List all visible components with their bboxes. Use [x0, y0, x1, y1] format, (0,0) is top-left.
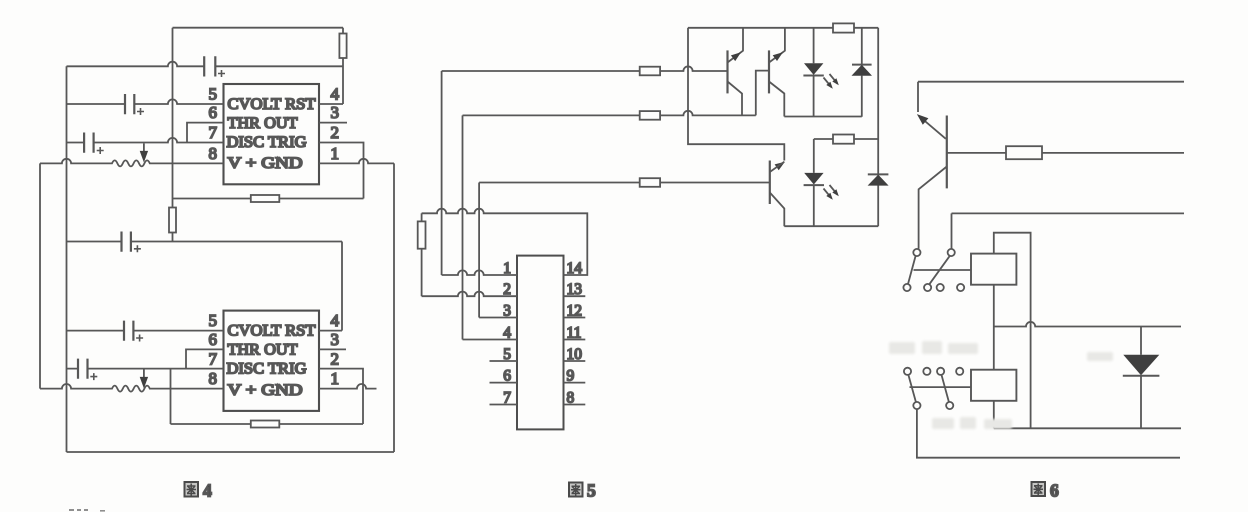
- capacitor C1 (top, on cap row): [204, 56, 225, 77]
- wire relay K1 bottom to middle rail: [993, 285, 995, 327]
- svg-text:2: 2: [331, 123, 340, 142]
- wire U2 pin1 with hop (open end): [319, 384, 377, 389]
- contact F: [957, 284, 964, 291]
- svg-text:3: 3: [331, 103, 340, 122]
- caption 图5 glyph: [569, 483, 583, 497]
- wire contact K down to lowest rail: [917, 409, 1180, 458]
- wire U3 pin2 row with hops: [422, 292, 517, 297]
- wire U3 pin7 stub: [490, 404, 518, 406]
- svg-text:8: 8: [209, 144, 218, 163]
- svg-text:CVOLT RST: CVOLT RST: [228, 96, 317, 113]
- transistor Q4 base bar: [946, 116, 948, 189]
- wire U3 pin6 stub: [490, 382, 518, 384]
- wire U2 pin6 stub and 6-7 bracket: [186, 349, 224, 368]
- transistor Q3 base bar: [769, 161, 771, 205]
- wire U2 pin7 node down to lower resistor row: [170, 369, 172, 424]
- contact E: [937, 284, 944, 291]
- transistor Q1 collector down to wire2 node: [728, 82, 743, 116]
- svg-text:4: 4: [331, 311, 340, 330]
- svg-text:DISC TRIG: DISC TRIG: [227, 134, 307, 151]
- svg-text:5: 5: [209, 85, 218, 104]
- lever contact G to K: [908, 375, 916, 402]
- svg-text:2: 2: [331, 350, 340, 369]
- svg-text:4: 4: [203, 481, 212, 501]
- wire top rail figure 6: [918, 81, 1184, 83]
- contact K: [913, 402, 920, 409]
- linkage bar to relay K2: [910, 386, 972, 388]
- resistor R4 (horizontal below U2): [171, 421, 364, 428]
- svg-text:CVOLT RST: CVOLT RST: [228, 322, 317, 339]
- svg-text:V + GND: V + GND: [228, 155, 303, 172]
- wire relay K1 top to right drop: [994, 233, 1031, 429]
- wire step from wire2 node up to Q2 base: [756, 71, 769, 116]
- wire U2 pin7 row: [67, 368, 224, 370]
- wire 3 vertical down to pin3 row: [478, 183, 480, 318]
- wire main left vertical x=172.5 with resistor R2: [169, 28, 176, 242]
- wire pin6 stub and 6-7 bracket: [187, 123, 224, 143]
- wire top rail of lower LED block: [814, 138, 878, 140]
- potentiometer RP1 wiper arrow: [143, 143, 145, 151]
- svg-text:7: 7: [209, 350, 218, 369]
- lever contact B to D: [929, 256, 950, 285]
- svg-text:7: 7: [209, 123, 218, 142]
- op-amp U2 (555 timer, lower): [224, 311, 320, 411]
- wire bottom rail of lower LED block: [784, 225, 878, 227]
- wire pin5 row with hop: [67, 99, 224, 104]
- wire U2 pin2 to lower node: [319, 369, 363, 424]
- caption 图4 glyph: [185, 482, 199, 497]
- wire U1 pin1 to right rail with hop: [319, 159, 394, 164]
- contact J: [956, 368, 963, 375]
- svg-text:5: 5: [587, 481, 596, 501]
- wire bottom rail of figure 4: [67, 451, 395, 453]
- wire U1 pin2 to lower node: [319, 143, 364, 199]
- wire middle rail with hop: [994, 322, 1181, 327]
- LED D1 emission arrows: [824, 74, 838, 87]
- svg-text:1: 1: [331, 144, 340, 163]
- wire U3 pin1 row with hops: [442, 270, 517, 275]
- wire bottom rail figure 6: [994, 427, 1181, 429]
- svg-text:5: 5: [209, 311, 218, 330]
- transistor Q3 emitter arrow: [775, 162, 785, 171]
- relay K1 coil box: [971, 254, 1016, 285]
- wire top rail upper section: [173, 27, 344, 29]
- wire Q4 base row with resistor R11: [947, 146, 1184, 159]
- resistor R3 (horizontal below U1): [173, 195, 364, 202]
- relay K2 coil box: [971, 370, 1016, 401]
- wire from second rail down to contact B: [951, 213, 953, 249]
- contact A (relay K1 common): [913, 249, 920, 256]
- wire U3 pin5 stub: [490, 360, 518, 362]
- wire U3 pin 8 stub: [564, 404, 586, 406]
- wire left rail x=66.5 down to bottom wire: [66, 66, 68, 452]
- transistor Q2 emitter with arrow to top rail: [769, 28, 785, 63]
- resistor R5 (left vertical of figure 5): [418, 213, 426, 296]
- resistor R1 (upper right vertical): [339, 28, 346, 104]
- transistor Q2 base bar: [768, 50, 770, 93]
- svg-text:6: 6: [1050, 481, 1059, 501]
- caption 图6 glyph: [1032, 482, 1046, 496]
- wire pin7 row with hop: [67, 138, 224, 143]
- wire U2 pin3 stub: [319, 348, 346, 350]
- contact G: [904, 368, 911, 375]
- svg-text:THR OUT: THR OUT: [228, 341, 299, 358]
- capacitor C6 (U2 pin7 row): [78, 359, 97, 381]
- wire inter-section cap row: [67, 241, 343, 243]
- diode D2 (top block middle branch): [852, 28, 873, 117]
- wire 2 vertical down to pin4 row: [462, 115, 464, 339]
- wire U1 pin4 stub: [319, 103, 343, 105]
- wire relay K2 bottom to bottom rail: [993, 401, 995, 429]
- transistor Q1 base bar: [726, 50, 728, 93]
- svg-text:DISC TRIG: DISC TRIG: [227, 360, 307, 377]
- svg-text:V + GND: V + GND: [228, 382, 303, 399]
- diode D5 (flyback, across rails): [1123, 327, 1160, 429]
- page-bottom specks: [69, 509, 105, 512]
- lever contact A to C: [908, 256, 916, 284]
- wire left vertical to Q3 emitter: [688, 28, 784, 161]
- contact B (relay K1 common 2): [948, 249, 955, 256]
- figure 5: 14-pin IC driving transistors and opto-LED blocks: [418, 23, 889, 500]
- contact L: [946, 402, 953, 409]
- transistor Q2 collector down to LED block rail: [769, 82, 784, 117]
- svg-text:3: 3: [331, 330, 340, 349]
- wire U2 pin4 stub: [319, 330, 342, 332]
- lever contact I to L: [942, 375, 949, 402]
- wire pin8 row with hop and potentiometer RP1: [40, 159, 224, 167]
- linkage bar to relay K1: [914, 269, 972, 271]
- figure 6: output transistor with relays: [903, 82, 1184, 501]
- faint print-through artifacts: [889, 341, 1113, 429]
- wire U3 pin 10 stub: [564, 360, 586, 362]
- wire U3 pin 12 stub: [564, 317, 586, 319]
- svg-text:8: 8: [209, 369, 218, 388]
- wire U2 pin5 row: [67, 330, 224, 332]
- contact D: [924, 284, 931, 291]
- diode D4 (lower block right branch): [868, 139, 889, 226]
- wire 2: to Q2 base via step, with resistor R7: [463, 111, 756, 120]
- LED D1 (top block left branch): [803, 28, 823, 117]
- wire 1 vertical down to pin1 row: [441, 71, 443, 275]
- wire top emitter rail of figure 5: [688, 27, 878, 29]
- wire bottom rail of top LED block: [784, 116, 862, 118]
- capacitor C3 (pin7 row): [84, 133, 104, 155]
- wire cap row to pin4 node: [67, 62, 344, 67]
- wire middle rail down to relay K2 top: [993, 327, 995, 370]
- figure 4: dual 555 timer circuit: [40, 28, 394, 501]
- transistor Q1 emitter with arrow to top rail: [728, 28, 744, 63]
- op-amp U3 (14-pin IC): [517, 256, 564, 430]
- capacitor C4 (inter-section row): [122, 232, 141, 253]
- wire from cap row down to U2 pin4: [341, 242, 343, 331]
- wire U3 pin4 row: [463, 339, 518, 341]
- svg-text:6: 6: [209, 330, 218, 349]
- wire U3 pin3 row: [479, 317, 517, 319]
- wire U2 pin8 row with hop and potentiometer RP2: [40, 384, 224, 392]
- transistor Q4 collector down to contact A: [919, 167, 947, 249]
- wire U3 pin 11 stub: [564, 339, 586, 341]
- wire right rail of figure 4: [393, 163, 395, 452]
- wire 1: U3 pin1 to transistor Q1 base, with resistor R6: [442, 66, 728, 75]
- resistor R9 (top LED block): [833, 23, 854, 32]
- transistor Q4 emitter wire from top rail with arrow: [918, 82, 946, 139]
- contact C: [903, 284, 910, 291]
- wire U3 pin 13 stub: [564, 295, 586, 297]
- resistor R10 (lower LED block): [833, 135, 854, 144]
- wire U3 pin 9 stub: [564, 382, 586, 384]
- wire top feedback row to U3 pin14 with hops: [422, 209, 588, 275]
- contact H: [923, 368, 930, 375]
- potentiometer RP2 wiper arrow: [143, 370, 145, 378]
- LED D3 (lower block left branch): [804, 139, 824, 226]
- wire U1 pin3 stub: [319, 122, 347, 124]
- svg-text:6: 6: [209, 103, 218, 122]
- svg-text:1: 1: [331, 369, 340, 388]
- LED D3 emission arrows: [824, 185, 838, 198]
- op-amp U1 (555 timer, upper): [224, 84, 320, 184]
- wire left rail x=40: [39, 163, 41, 388]
- svg-text:4: 4: [331, 85, 340, 104]
- transistor Q3 collector down to lower LED block rail: [770, 193, 785, 227]
- svg-text:THR OUT: THR OUT: [228, 115, 299, 132]
- wire 3: U3 pin3 to transistor Q3 base, with resistor R8: [479, 178, 769, 187]
- contact I: [937, 368, 944, 375]
- capacitor C2 (pin5 row): [125, 94, 144, 115]
- capacitor C5 (U2 pin5 row): [124, 321, 143, 342]
- wire right vertical joining both LED blocks: [877, 28, 879, 139]
- wire second rail figure 6: [952, 212, 1185, 214]
